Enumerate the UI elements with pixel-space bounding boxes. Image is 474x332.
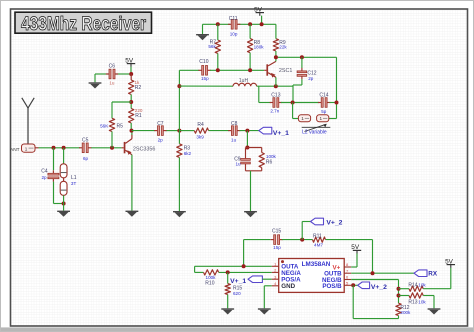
value C12 2p: [308, 76, 314, 81]
value C7 2p: [158, 138, 164, 143]
power 5V (top): [254, 6, 264, 15]
power 5V (IC): [351, 244, 361, 253]
pin stub POS/A: [272, 278, 279, 280]
wire to R5 top: [112, 102, 131, 118]
label LM358AN: [302, 261, 331, 268]
wire C13 drop: [259, 86, 272, 102]
svg-text:433Mhz Receiver: 433Mhz Receiver: [21, 14, 146, 35]
svg-text:10k: 10k: [418, 299, 426, 304]
value C11 10p: [230, 31, 238, 36]
pin label OUTB: [324, 271, 342, 278]
svg-text:5p: 5p: [321, 109, 327, 114]
label C9: [234, 157, 241, 163]
svg-text:R14: R14: [408, 283, 417, 289]
wire L1 top: [63, 148, 65, 164]
wire Q2 collector: [275, 57, 277, 61]
svg-text:V+_2: V+_2: [371, 284, 387, 291]
wire C9R6 to ground: [250, 171, 252, 211]
junction R9-collector: [274, 55, 278, 59]
wire emitter rail: [257, 85, 293, 87]
wire R14 to 5V: [423, 268, 451, 289]
value R4 3k9: [196, 135, 204, 140]
wire POS/B net: [351, 284, 357, 286]
wire OUTA: [195, 265, 272, 267]
ground under C6: [89, 82, 102, 88]
svg-text:C14: C14: [319, 93, 328, 99]
svg-text:2SC1: 2SC1: [279, 68, 293, 74]
pin label POS/A: [281, 277, 301, 284]
svg-text:GND: GND: [281, 283, 295, 290]
pin label NEG/A: [281, 270, 301, 277]
wire R4 to C8: [209, 130, 230, 132]
wire POSA: [262, 278, 271, 280]
junction baserail-R8: [248, 68, 252, 72]
wire top rail: [203, 23, 276, 25]
junction C15-R11-V+2: [300, 238, 304, 242]
junction emitter rail: [274, 84, 278, 88]
resistor R4: [194, 128, 208, 133]
svg-text:620: 620: [233, 291, 241, 296]
resistor R3: [177, 131, 182, 158]
value C9 1u: [235, 162, 241, 167]
wire OUTB net: [351, 272, 414, 274]
capacitor C8: [228, 121, 240, 135]
wire C12 top lead: [301, 57, 303, 68]
svg-text:1: 1: [301, 116, 304, 121]
flag V+_2 (bottom): [358, 282, 370, 289]
junction R2-R1-R5: [129, 100, 133, 104]
pin number 8: [346, 262, 349, 267]
capacitor C15: [270, 229, 282, 245]
pin stub NEG/A: [272, 271, 279, 273]
pin stub V+: [344, 266, 351, 268]
flag V+_1 (bottom): [248, 276, 262, 283]
transistor Q1 2SC3356: [122, 135, 132, 155]
svg-text:C7: C7: [157, 121, 164, 127]
junction collector node: [130, 129, 134, 133]
pin number 2: [274, 268, 277, 273]
junction mid-1uH: [177, 84, 181, 88]
svg-text:3T: 3T: [71, 181, 77, 186]
junction node C4: [52, 146, 56, 150]
pin number 3: [274, 274, 277, 279]
variable arrow L2: [302, 124, 331, 132]
value R6 100k: [266, 154, 277, 159]
ground under R13: [428, 308, 441, 314]
inductor 1uH: [233, 83, 257, 86]
svg-text:V+_2: V+_2: [326, 220, 342, 227]
svg-text:1u: 1u: [235, 162, 241, 167]
wire tank right vertical: [336, 57, 338, 118]
wire R7 bottom: [217, 53, 219, 70]
svg-text:RX: RX: [428, 270, 438, 277]
svg-text:6p: 6p: [83, 156, 89, 161]
wire 5V to rail: [130, 67, 132, 74]
label L2 variable: [302, 130, 327, 136]
junction C7-R3-R4: [177, 129, 181, 133]
op-amp U1 LM358AN body: [279, 259, 345, 293]
pin label V+: [333, 264, 341, 271]
label 1uH: [239, 78, 249, 84]
svg-text:1: 1: [25, 146, 28, 151]
svg-text:22k: 22k: [279, 44, 287, 49]
svg-text:1u: 1u: [109, 80, 115, 85]
junction rail-R7: [216, 22, 220, 26]
label R14: [408, 283, 417, 289]
ground under IC: [258, 308, 271, 314]
power 5V (R14): [445, 258, 455, 267]
junction C8-out: [245, 129, 249, 133]
junction out-C9R6: [245, 146, 249, 150]
svg-text:10p: 10p: [230, 31, 238, 36]
svg-text:R2: R2: [135, 85, 142, 91]
wire V+_2 stem: [302, 222, 310, 240]
svg-text:L2 variable: L2 variable: [302, 130, 327, 136]
wire Q1 emitter to ground: [131, 155, 133, 211]
junction OUTA-C15: [242, 264, 246, 268]
svg-text:6k2: 6k2: [184, 151, 192, 156]
wire R9 bottom: [275, 51, 277, 57]
value C8 1u: [231, 138, 237, 143]
svg-text:POS/B: POS/B: [322, 283, 342, 290]
junction POSB: [351, 283, 355, 287]
svg-text:200k: 200k: [400, 310, 411, 315]
resistor R9: [273, 24, 278, 51]
label R7: [210, 40, 217, 46]
value C13 2.7n: [270, 109, 279, 114]
pin number 5: [346, 280, 349, 285]
label R1: [135, 113, 142, 119]
value R12 200k: [400, 310, 411, 315]
value R1 220: [135, 108, 143, 113]
wire collector rail Q2: [276, 56, 337, 58]
label R13: [408, 299, 417, 305]
svg-text:15p: 15p: [201, 76, 209, 81]
wire C9R6 loop: [246, 148, 262, 171]
svg-text:R10: R10: [205, 281, 214, 287]
svg-text:C13: C13: [271, 92, 280, 98]
label R10: [205, 281, 214, 287]
wire R5 to base: [111, 132, 113, 148]
value R5 56K: [100, 124, 109, 129]
svg-text:10k: 10k: [418, 283, 426, 288]
capacitor C11: [228, 16, 240, 29]
pin stub GND: [272, 285, 279, 287]
transistor Q2 2SC1: [264, 61, 276, 77]
pin stub NEG/B: [344, 279, 351, 281]
svg-text:100k: 100k: [266, 154, 277, 159]
value R9 22k: [279, 44, 287, 49]
value R11 4M7: [314, 243, 323, 248]
resistor R10: [204, 270, 219, 275]
junction rail-5V: [260, 22, 264, 26]
value R7 56k: [208, 44, 216, 49]
svg-text:180k: 180k: [254, 44, 265, 49]
svg-text:LM358AN: LM358AN: [302, 261, 331, 268]
value R8 180k: [254, 44, 265, 49]
value L1 3T: [71, 181, 77, 186]
wire 1uH left: [179, 85, 233, 87]
wire R2-R1: [130, 95, 132, 109]
value R3 6k2: [184, 151, 192, 156]
wire 5V to V+ pin: [351, 253, 357, 267]
label V+_1 (bottom): [230, 278, 246, 285]
label C12: [307, 71, 316, 77]
wire base net: [39, 147, 122, 149]
wire Q1 collector: [131, 131, 133, 135]
wire 5V top stem: [261, 16, 263, 25]
label R6: [266, 160, 273, 166]
svg-text:2.7n: 2.7n: [270, 109, 279, 114]
label RX: [428, 270, 438, 277]
svg-text:100k: 100k: [206, 275, 217, 280]
pin number 6: [346, 275, 349, 280]
label R5: [117, 124, 124, 130]
ground under L1: [57, 211, 70, 217]
svg-text:C4: C4: [41, 168, 48, 174]
svg-text:C5: C5: [82, 138, 89, 144]
resistor R7: [215, 24, 220, 53]
inductor L1: [60, 164, 77, 196]
connector pad L2 right: [317, 115, 329, 122]
svg-text:R4: R4: [197, 122, 204, 128]
value C10 15p: [201, 76, 209, 81]
value R2 1k: [135, 80, 141, 85]
svg-text:V+_1: V+_1: [273, 130, 289, 137]
wire L2 left lead: [293, 103, 299, 119]
resistor R5: [109, 118, 114, 131]
wire to R4: [179, 130, 194, 132]
label R15: [233, 286, 242, 292]
junction NEGB-R14: [397, 287, 401, 291]
wire top rail gnd drop: [202, 24, 204, 34]
value C6 1u: [109, 80, 115, 85]
label R11: [313, 234, 322, 240]
ground under C9R6: [244, 211, 257, 217]
wire mid vertical: [178, 70, 180, 130]
svg-text:ANT: ANT: [10, 147, 20, 153]
capacitor C4: [41, 168, 59, 181]
pin label GND: [281, 283, 295, 290]
wire C8 to flag: [240, 130, 259, 132]
label R2: [135, 85, 142, 91]
wire out to C9R6: [246, 131, 248, 148]
resistor R8: [247, 24, 252, 52]
svg-text:56k: 56k: [208, 44, 216, 49]
capacitor C7: [154, 121, 166, 135]
capacitor C5: [79, 138, 91, 153]
value C14 5p: [321, 109, 327, 114]
value R14 10k: [418, 283, 426, 288]
svg-text:C6: C6: [109, 64, 116, 70]
connector ANT: [10, 144, 39, 153]
svg-text:1u: 1u: [231, 138, 237, 143]
resistor R1: [129, 109, 134, 124]
wire C6 rail: [97, 73, 131, 75]
flag V+_1 (top): [259, 127, 272, 134]
junction C14-right: [335, 101, 339, 105]
svg-text:R1: R1: [135, 113, 142, 119]
wire R15 to ground: [227, 295, 229, 309]
label R8: [254, 40, 261, 46]
resistor R11: [313, 237, 326, 242]
wire C4 top: [53, 148, 55, 170]
flag V+_2 (top): [311, 218, 324, 225]
connector pad L2 left: [298, 115, 310, 122]
capacitor C14: [318, 93, 330, 108]
label R9: [279, 40, 286, 46]
svg-text:2SC3356: 2SC3356: [133, 146, 155, 152]
wire C4 bottom: [54, 182, 64, 204]
svg-text:C11: C11: [229, 16, 238, 22]
svg-text:R5: R5: [117, 124, 124, 130]
capacitor C6: [106, 64, 118, 79]
resistor R2: [129, 74, 134, 95]
svg-text:C8: C8: [231, 121, 238, 127]
pin label OUTA: [281, 264, 299, 271]
wire NEG/B net: [351, 280, 398, 304]
wire C13 to C14: [281, 102, 319, 104]
wire Q2 emitter: [275, 77, 277, 86]
pin label POS/B: [322, 283, 342, 290]
svg-text:R6: R6: [266, 160, 273, 166]
junction NEGA-R15: [226, 270, 230, 274]
label V+_2 (bottom): [371, 284, 387, 291]
wire L2 right lead: [329, 118, 337, 120]
junction baserail-R7: [216, 68, 220, 72]
pin stub OUTA: [272, 265, 279, 267]
pin label NEG/B: [322, 277, 342, 284]
svg-text:56K: 56K: [100, 124, 109, 129]
wire C14 right: [329, 102, 336, 104]
wire C12 bottom jog: [293, 79, 302, 102]
svg-text:2p: 2p: [158, 138, 164, 143]
wire R3 to ground: [178, 158, 180, 212]
svg-text:4M7: 4M7: [314, 243, 323, 248]
resistor R6: [259, 153, 264, 168]
svg-text:R13: R13: [408, 299, 417, 305]
pin number 7: [346, 268, 349, 273]
junction rail-R8: [248, 22, 252, 26]
svg-text:V+_1: V+_1: [230, 278, 246, 285]
wire R8 bottom: [249, 53, 251, 71]
label 2SC3356: [133, 146, 155, 152]
wire C10 left: [179, 69, 199, 71]
value C15 15p: [273, 245, 281, 250]
label V+_2 (top): [326, 220, 342, 227]
svg-text:15p: 15p: [273, 245, 281, 250]
value R15 620: [233, 291, 241, 296]
pin stub POS/B: [344, 284, 351, 286]
pin number 1: [274, 261, 277, 266]
junction C13-C14-L2: [291, 101, 295, 105]
title "433Mhz Receiver": [15, 12, 152, 35]
capacitor C10: [198, 59, 210, 75]
capacitor C12: [297, 68, 307, 79]
ground under Q1: [126, 211, 139, 217]
junction C12 top: [300, 55, 304, 59]
svg-text:2p: 2p: [41, 175, 47, 180]
capacitor C13: [270, 92, 282, 107]
pin stub OUTB: [344, 272, 351, 274]
wire R11 to OUTB: [326, 240, 373, 274]
wire GND pin: [264, 286, 272, 309]
value R13 10k: [418, 299, 426, 304]
label R3: [184, 146, 191, 152]
ground under R15: [221, 308, 234, 314]
wire OUTA wrap: [195, 266, 204, 272]
antenna: [22, 98, 34, 144]
label R4: [197, 122, 204, 128]
value C5 6p: [83, 156, 89, 161]
resistor R13: [399, 293, 424, 298]
pin number 4: [274, 281, 277, 286]
resistor R12: [396, 303, 401, 315]
svg-text:1: 1: [319, 116, 322, 121]
label 2SC1: [279, 68, 293, 74]
label R12: [400, 305, 409, 311]
flag RX: [414, 270, 427, 277]
junction OUTB-R11: [371, 271, 375, 275]
junction C4-L1-gnd: [62, 202, 66, 206]
wire C15 left: [244, 240, 271, 267]
resistor R14: [399, 286, 424, 291]
wire Q2 base rail: [210, 69, 264, 71]
svg-text:1uH: 1uH: [239, 78, 249, 84]
label V+_1 (top): [273, 130, 289, 137]
resistor R15: [225, 272, 230, 294]
wire C6 to ground: [95, 74, 97, 82]
wire collector rail: [132, 130, 180, 132]
wire R13 to ground: [423, 296, 434, 309]
junction node L1: [62, 146, 66, 150]
value R10 100k: [206, 275, 217, 280]
junction NEGB-R13: [397, 294, 401, 298]
ground under R3: [173, 211, 186, 217]
value C4 2p: [41, 175, 47, 180]
svg-text:2p: 2p: [308, 76, 314, 81]
wire R10 to NEGA: [219, 271, 272, 273]
capacitor C9: [241, 156, 251, 167]
ground top rail: [196, 34, 209, 40]
wire R1 to collector node: [130, 123, 132, 131]
svg-text:C15: C15: [272, 229, 281, 235]
junction 5V-C6-R2: [129, 72, 133, 76]
wire L1 gnd stem: [63, 195, 65, 210]
wire POSB loop: [353, 285, 398, 318]
junction node R5-base: [110, 146, 114, 150]
power 5V (Q1): [125, 57, 135, 66]
svg-text:3k9: 3k9: [196, 135, 204, 140]
wire C15 right to R11: [282, 239, 313, 241]
svg-text:R11: R11: [313, 234, 322, 240]
svg-text:C10: C10: [199, 59, 208, 65]
